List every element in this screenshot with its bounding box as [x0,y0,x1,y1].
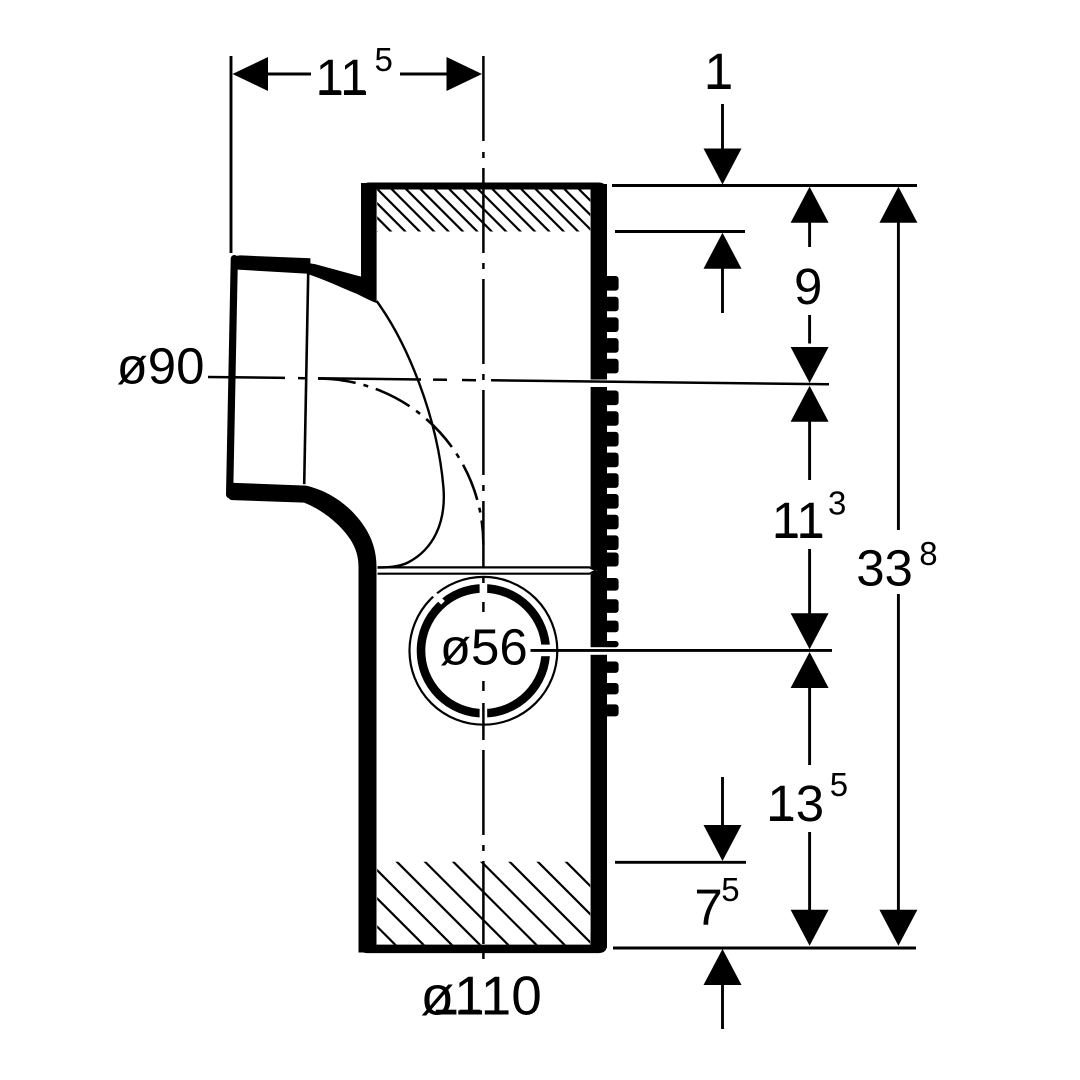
dimension line 11.5 left part [266,73,311,76]
white gaps in ø56 rings [429,582,553,720]
svg-text:3: 3 [828,485,846,522]
svg-text:5: 5 [830,766,848,803]
white wedge notch of joint line in right wall [590,566,597,575]
arrowhead dim 11.3 down [791,613,829,649]
stem of dim 11.3 upper arrow [808,420,811,480]
top cap [361,183,607,203]
svg-text:ø56: ø56 [440,618,528,675]
big inner bend curve [377,301,444,568]
joint double line [378,567,597,570]
svg-text:8: 8 [919,535,937,572]
extension line of bottom face [613,947,916,950]
stem of dim 13.5 upper arrow [808,687,811,766]
arrowhead dim 9 down [791,347,829,383]
right wall lower segment [591,655,607,948]
svg-text:33: 33 [856,540,913,597]
arrowhead dim 1 down [704,149,742,185]
ø56 port thick circle [421,588,546,713]
right wall upper segment [591,184,607,380]
dimension line 11.5 right part [400,73,448,76]
stem of dim 9 lower arrow [808,315,811,344]
arrowhead dim 11.3 up [791,386,829,422]
right wall middle segment [591,387,607,647]
foot serifs for digit 1 glyphs [320,84,822,1014]
stem of dim 9 upper arrow [808,221,811,247]
extension line of weld zone depth 1 [615,230,745,233]
stem of dim 1 upper arrow [721,104,724,150]
ø56 port thin outer circle [410,577,558,725]
svg-text:5: 5 [375,41,393,78]
arrowhead dim 7.5 up [704,949,742,985]
bend dash-dot centerline [318,379,483,545]
arrowhead dim 7.5 down [704,825,742,861]
branch socket bottom wall + lower-left wall of pipe [228,483,377,953]
extension line of branch socket mouth [230,56,233,253]
arrowhead dim 1 up [704,233,742,269]
stem of dim 11.3 lower arrow [808,549,811,615]
extension line of spigot depth 7.5 [615,861,746,864]
svg-text:1: 1 [705,43,733,100]
arrowhead dim 13.5 down [791,910,829,946]
arrowhead dim 11.5 left [233,57,269,91]
hatch top band [317,186,639,234]
stem of dim 33.8 upper part [897,221,900,530]
left wall upper + branch top wall [233,183,377,303]
svg-text:5: 5 [721,871,739,908]
stem of dim 7.5 upper arrow [721,777,724,827]
arrowhead dim 13.5 up [791,652,829,688]
stem of dim 33.8 lower part [897,594,900,911]
svg-text:11: 11 [316,49,369,106]
arrowhead dim 33.8 down [879,910,917,946]
extension line of top face [612,184,917,187]
branch socket mouth face [230,259,235,495]
stem of dim 1 lower arrow [721,268,724,313]
arrowhead dim 33.8 up [879,187,917,223]
svg-text:9: 9 [794,258,822,315]
svg-text:13: 13 [767,775,824,832]
bottom cap [359,933,608,953]
arrowhead dim 9 up [791,187,829,223]
hatch bottom band [252,858,684,952]
arrowhead dim 11.5 right [447,57,483,91]
svg-text:11: 11 [772,492,825,549]
stem of dim 7.5 lower arrow [721,984,724,1029]
svg-text:ø110: ø110 [421,965,542,1027]
horizontal ø90 centerline [208,377,829,384]
stem of dim 13.5 lower arrow [808,832,811,911]
socket inner depth line [304,274,308,484]
ribs run B [604,391,619,567]
vertical pipe centerline [482,56,485,959]
svg-text:7: 7 [694,879,722,936]
ribs run A [604,276,619,373]
white mask behind ø56 label [438,615,523,677]
ribs run C [604,578,619,647]
svg-text:ø90: ø90 [117,338,205,395]
ribs run D [604,662,619,717]
leader line of ø56 side port [531,649,833,652]
